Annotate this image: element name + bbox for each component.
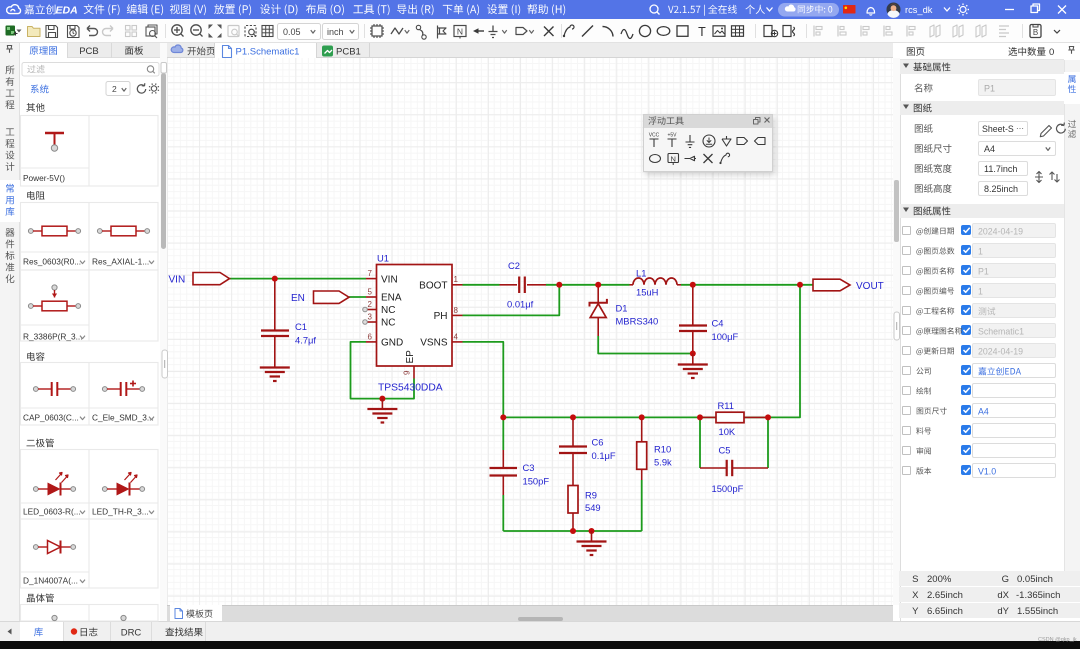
svg-text:3: 3: [368, 312, 373, 321]
svg-text:2: 2: [368, 300, 373, 309]
svg-text:8: 8: [454, 306, 459, 315]
svg-text:C2: C2: [508, 260, 520, 271]
wire bottom bus: [503, 530, 641, 532]
svg-text:GND: GND: [381, 338, 403, 349]
svg-text:5: 5: [368, 287, 373, 296]
wire L1 to VOUT: [681, 284, 813, 286]
svg-text:4.7μf: 4.7μf: [295, 335, 316, 346]
wire C5 left drop: [699, 417, 701, 468]
diode D1 MBRS340: [597, 285, 599, 303]
node junction chip GND: [379, 396, 385, 402]
svg-text:VSNS: VSNS: [420, 338, 448, 349]
svg-text:6: 6: [368, 332, 373, 341]
capacitor C6 0.1uF: [572, 417, 574, 446]
IC U1 TPS5430DDA body: [377, 265, 453, 367]
svg-text:0.01μf: 0.01μf: [507, 299, 534, 310]
node junction VIN/C1: [272, 276, 278, 282]
svg-text:C6: C6: [592, 437, 604, 448]
svg-text:1: 1: [454, 275, 459, 284]
ground under C4: [692, 354, 694, 365]
wire VIN rail: [230, 278, 367, 280]
node junction C4 bottom: [690, 351, 696, 357]
wire PH riser: [463, 285, 560, 316]
U1 pin 3 NC: [368, 321, 377, 323]
U1 pin 1 BOOT: [452, 284, 463, 286]
U1 pin 4 VSNS: [452, 341, 463, 343]
node junction L1/C4: [690, 282, 696, 288]
svg-text:549: 549: [585, 502, 601, 513]
U1 pin 8 PH: [452, 314, 463, 316]
svg-text:100μF: 100μF: [712, 331, 739, 342]
resistor R10 5.9k: [641, 417, 643, 441]
node junction bus/C6: [570, 414, 576, 420]
U1 pin 2 NC: [368, 309, 377, 311]
svg-text:150pF: 150pF: [523, 476, 550, 487]
ground under C1: [260, 366, 290, 368]
svg-text:ENA: ENA: [381, 293, 402, 304]
U1 pin 6 GND: [366, 341, 377, 343]
wire VSNS to feedback bus: [463, 342, 504, 418]
svg-text:C3: C3: [523, 462, 535, 473]
svg-text:NC: NC: [381, 305, 395, 316]
wire BOOT to C2: [463, 284, 500, 286]
node junction bus/R11 right: [765, 414, 771, 420]
port VIN: [193, 273, 230, 285]
svg-text:VIN: VIN: [169, 275, 186, 286]
svg-text:7: 7: [368, 269, 373, 278]
svg-text:C5: C5: [719, 445, 731, 456]
resistor R11 10K: [700, 416, 716, 418]
svg-text:4: 4: [454, 332, 459, 341]
wire feedback bus: [503, 285, 800, 418]
port VOUT: [813, 279, 850, 291]
svg-text:L1: L1: [636, 268, 646, 279]
svg-text:9: 9: [403, 370, 412, 375]
node junction bus/R11 left: [697, 414, 703, 420]
svg-text:BOOT: BOOT: [419, 281, 447, 292]
svg-text:0.1μF: 0.1μF: [592, 450, 616, 461]
capacitor C2 0.01uf: [500, 284, 518, 286]
svg-text:C1: C1: [295, 321, 307, 332]
svg-text:U1: U1: [377, 253, 389, 264]
node junction bottom bus gnd tap: [589, 528, 595, 534]
svg-text:PH: PH: [434, 311, 448, 322]
wire GND pin6 loop: [351, 342, 415, 399]
port EN: [314, 291, 350, 303]
node junction C2/PH: [556, 282, 562, 288]
wire EN to pin5: [349, 296, 366, 298]
node junction VSNS corner: [500, 414, 506, 420]
svg-text:TPS5430DDA: TPS5430DDA: [378, 383, 443, 394]
wire R10 bottom: [641, 480, 643, 531]
svg-text:15uH: 15uH: [636, 287, 658, 298]
node junction R9 bottom: [570, 528, 576, 534]
svg-text:R11: R11: [718, 400, 735, 411]
svg-text:1500pF: 1500pF: [712, 483, 744, 494]
node junction VOUT tap: [797, 282, 803, 288]
U1 pin 5 ENA: [366, 296, 377, 298]
capacitor C4 100uF: [692, 285, 694, 325]
svg-text:NC: NC: [381, 318, 395, 329]
svg-text:EP: EP: [405, 350, 416, 364]
svg-text:R9: R9: [585, 490, 597, 501]
wire C5 right drop: [767, 417, 769, 468]
capacitor C3 150pF: [502, 450, 504, 468]
wire C3 drop: [502, 417, 504, 450]
svg-text:EN: EN: [291, 293, 305, 304]
inductor L1 15uH: [630, 284, 634, 286]
capacitor C5 1500pF: [700, 467, 727, 469]
U1 pin 9 EP: [413, 366, 415, 379]
svg-text:C4: C4: [712, 318, 724, 329]
wire D1 anode to C4 bottom: [598, 336, 693, 354]
node junction bus/R10: [639, 414, 645, 420]
svg-text:10K: 10K: [719, 426, 736, 437]
U1 pin 7 VIN: [366, 278, 377, 280]
svg-text:5.9k: 5.9k: [654, 457, 672, 468]
svg-text:MBRS340: MBRS340: [616, 316, 659, 327]
ground under bottom bus: [591, 531, 593, 541]
ground under U1: [381, 399, 383, 409]
svg-text:R10: R10: [654, 444, 671, 455]
svg-text:VOUT: VOUT: [856, 281, 884, 292]
capacitor C1 4.7uf: [274, 279, 276, 330]
wire C3 to bottom bus: [502, 495, 504, 531]
node junction rail/D1: [595, 282, 601, 288]
svg-text:VIN: VIN: [381, 274, 398, 285]
wire C2 to switch rail: [546, 284, 630, 286]
svg-text:D1: D1: [616, 303, 628, 314]
resistor R9 549: [568, 486, 578, 514]
